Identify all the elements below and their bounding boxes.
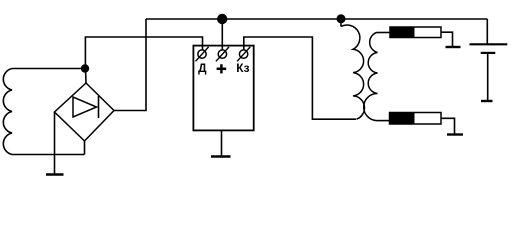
svg-text:Кз: Кз [236,61,249,75]
suppressor resistor / spark plug top body [390,27,441,38]
battery GB1 negative plate [481,52,496,54]
wire: diamond right vertex to top bus [114,19,146,111]
terminal plus circle [218,50,226,58]
ground: battery [481,100,493,102]
diode cathode bar [98,96,100,118]
ground: box [211,155,231,158]
generator coil L1 [3,69,12,155]
wire: Kz terminal to ignition coil primary bottom [244,37,356,119]
wire: battery negative down [487,53,489,101]
spark gap electrode top [446,46,461,48]
terminal Kz slash [237,47,250,61]
wire: secondary bottom to suppressor [377,120,390,122]
electronic ignition unit box [193,46,253,131]
wire: secondary top to suppressor [377,32,391,34]
suppressor top black half [390,27,415,38]
wire: diamond left vertex to ground [54,112,56,175]
terminal plus slash [216,47,229,61]
terminal D slash [196,47,209,61]
ground: generator side [46,173,64,176]
wire: diamond top vertex to junction [85,69,88,84]
spark gap electrode bottom [447,133,463,135]
wire: dot down to plus terminal [221,19,223,50]
wire: box ground stem [221,130,223,156]
suppressor resistor / spark plug bottom body [390,113,442,125]
wire: top plug to electrode [441,32,453,47]
suppressor bottom black half [390,113,415,125]
diode symbol inside VD1 [73,97,97,117]
wire: top bus [146,18,487,20]
wire: generator coil bottom lead [12,154,85,156]
wire: junction dot down to primary top [340,19,342,27]
ignition coil T1 secondary winding [364,33,378,121]
svg-text:Д: Д [198,61,207,75]
wire: generator coil top lead [12,68,85,70]
node: junction dot over plus terminal [217,14,227,24]
ignition coil T1 primary winding [341,25,364,119]
wire: top bus down to battery [486,19,488,44]
wire: diamond bottom vertex down [84,141,86,155]
wire: junction up to D line [85,37,202,69]
wire: bottom plug to electrode [441,118,455,134]
battery GB1 positive plate [470,43,508,45]
label plus [217,64,227,73]
bridge rectifier VD1 body [55,83,115,141]
node: junction dot generator/rectifier [81,64,89,72]
terminal Kz circle [239,50,247,58]
node: junction dot over ignition coil [337,14,346,23]
terminal D circle [198,50,206,58]
